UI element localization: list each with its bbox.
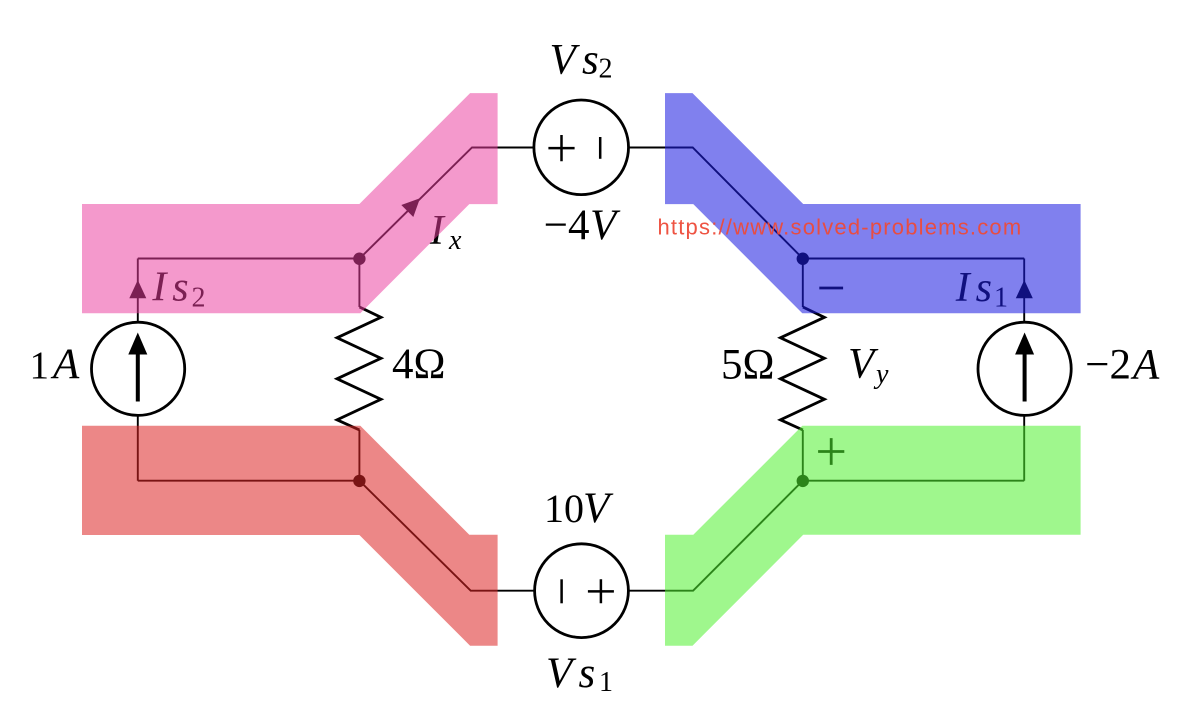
svg-text:1: 1 [599, 667, 613, 698]
svg-text:10: 10 [544, 486, 584, 531]
svg-text:A: A [1130, 342, 1160, 389]
svg-text:−4: −4 [544, 202, 590, 249]
svg-text:1: 1 [30, 344, 50, 387]
svg-text:s: s [579, 650, 596, 697]
svg-text:−2: −2 [1085, 342, 1131, 389]
svg-text:https://www.solved-problems.co: https://www.solved-problems.com [658, 215, 1023, 240]
svg-text:2: 2 [599, 54, 613, 85]
svg-text:s: s [582, 37, 599, 84]
svg-text:y: y [873, 359, 889, 390]
svg-text:A: A [50, 341, 80, 388]
svg-text:x: x [448, 225, 462, 256]
svg-text:5Ω: 5Ω [721, 342, 774, 389]
svg-text:4Ω: 4Ω [392, 341, 445, 388]
